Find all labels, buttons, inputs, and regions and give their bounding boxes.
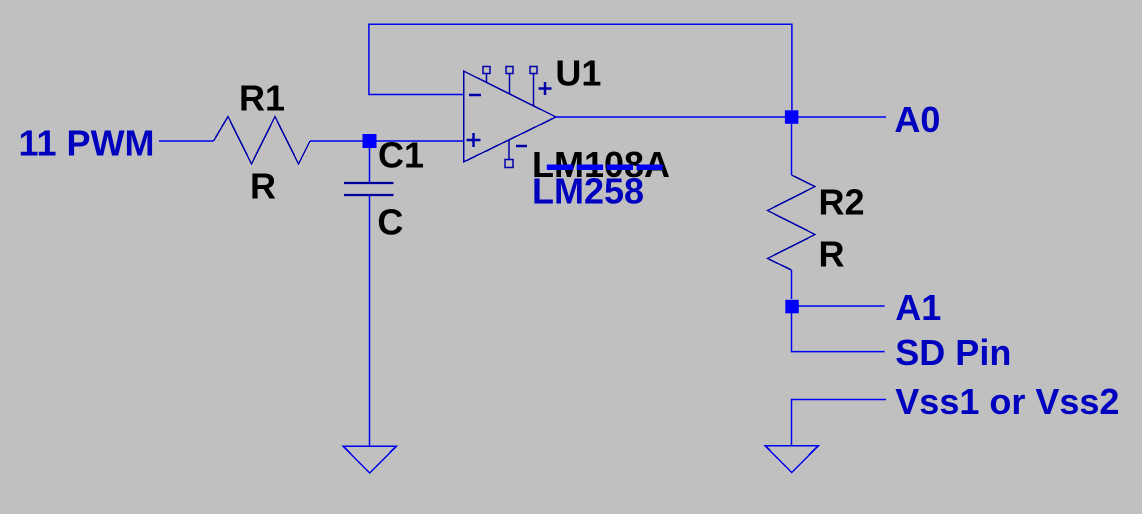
svg-text:LM258: LM258 <box>532 171 644 212</box>
svg-text:A0: A0 <box>894 99 940 140</box>
svg-text:A1: A1 <box>895 287 941 328</box>
svg-text:R: R <box>250 166 276 207</box>
svg-text:U1: U1 <box>555 52 601 93</box>
svg-text:R: R <box>819 234 845 275</box>
svg-text:Vss1 or Vss2: Vss1 or Vss2 <box>895 381 1119 422</box>
svg-text:R1: R1 <box>239 77 285 118</box>
svg-text:11 PWM: 11 PWM <box>19 123 155 164</box>
svg-text:R2: R2 <box>819 182 865 223</box>
svg-text:SD Pin: SD Pin <box>895 332 1011 373</box>
svg-text:C: C <box>377 202 403 243</box>
svg-text:C1: C1 <box>378 135 424 176</box>
